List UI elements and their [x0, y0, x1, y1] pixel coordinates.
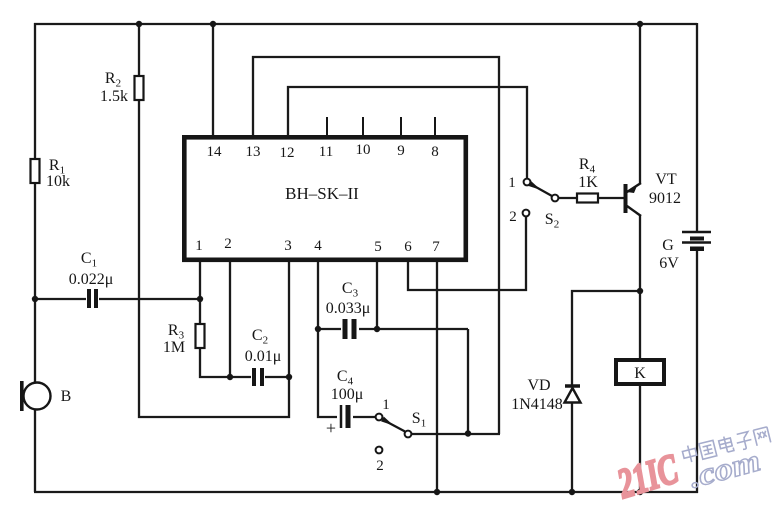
- glyph dian: [718, 435, 734, 454]
- pin 11 stub: [326, 117, 328, 135]
- svg-text:10k: 10k: [46, 173, 70, 190]
- resistor R3: [196, 324, 205, 348]
- wire pin 1 / R3 branch down to C2 line: [200, 261, 289, 377]
- glyph guo: [699, 440, 717, 459]
- svg-text:2: 2: [224, 236, 232, 252]
- glyph zi: [735, 431, 754, 450]
- svg-text:2: 2: [509, 209, 517, 225]
- resistor R4: [577, 194, 598, 203]
- svg-text:6V: 6V: [659, 255, 679, 272]
- transistor VT 9012: [624, 183, 642, 216]
- wire pin 2 riser: [229, 261, 231, 377]
- watermark .com: [685, 442, 764, 494]
- svg-text:BH–SK–II: BH–SK–II: [285, 184, 359, 203]
- svg-text:10: 10: [356, 142, 371, 158]
- wire C1 line from left rail to pin 1 node: [35, 298, 200, 300]
- capacitor C2: [251, 368, 265, 386]
- svg-text:VD: VD: [527, 377, 550, 394]
- pin 9 stub: [400, 117, 402, 135]
- svg-text:11: 11: [319, 144, 333, 160]
- pin 10 stub: [362, 117, 364, 135]
- node dot pin1 C1: [197, 296, 203, 302]
- svg-text:5: 5: [374, 239, 382, 255]
- wire top supply rail: [34, 23, 697, 25]
- wire C3 line: [318, 328, 468, 330]
- wire pin 13 loop to S1 output: [253, 57, 499, 434]
- svg-text:1K: 1K: [578, 174, 598, 191]
- svg-text:1: 1: [195, 238, 203, 254]
- svg-text:R4: R4: [579, 156, 596, 176]
- svg-text:9012: 9012: [649, 190, 681, 207]
- svg-text:B: B: [61, 388, 72, 405]
- svg-text:C2: C2: [252, 327, 268, 347]
- wire C3 right riser down to S1 output: [467, 329, 469, 433]
- svg-text:8: 8: [431, 144, 439, 160]
- node dot ground rail VD: [569, 489, 575, 495]
- wire relay to ground rail: [639, 385, 641, 492]
- wire VD branch horizontal from collector node: [572, 291, 640, 386]
- node dot ground rail pin7: [434, 489, 440, 495]
- capacitor C1: [86, 289, 99, 308]
- svg-text:14: 14: [207, 144, 223, 160]
- watermark 21IC: [612, 446, 684, 508]
- svg-text:R2: R2: [105, 70, 121, 90]
- resistor R2: [135, 76, 144, 100]
- node dot top rail at R2: [136, 21, 142, 27]
- svg-text:1.5k: 1.5k: [100, 88, 128, 105]
- node dot top rail at pin 14: [210, 21, 216, 27]
- node dot pin2 C2: [227, 374, 233, 380]
- svg-text:S2: S2: [545, 211, 559, 231]
- svg-text:0.01μ: 0.01μ: [245, 348, 282, 365]
- pin 8 stub: [434, 117, 436, 135]
- svg-text:C3: C3: [342, 280, 359, 300]
- node dot pin3 C2: [286, 374, 292, 380]
- wire VT collector down to relay: [639, 215, 641, 360]
- svg-text:1: 1: [382, 397, 390, 413]
- wire R4 to transistor base: [598, 197, 624, 199]
- capacitor C3: [341, 319, 359, 339]
- svg-text:G: G: [662, 237, 674, 254]
- wire VD anode to ground rail: [571, 401, 573, 492]
- wire pin 14 riser to top rail: [212, 24, 214, 136]
- wire pin 7 riser to ground rail: [436, 261, 438, 492]
- node dot ground rail relay: [637, 489, 643, 495]
- svg-text:4: 4: [314, 238, 322, 254]
- watermark 中国电子网 drawn as paths: [681, 426, 770, 464]
- svg-text:0.033μ: 0.033μ: [326, 300, 371, 317]
- microphone B: [20, 381, 51, 411]
- node dot top rail at VT emitter: [637, 21, 643, 27]
- glyph zhong: [681, 444, 698, 464]
- svg-text:100μ: 100μ: [331, 386, 364, 403]
- svg-text:2: 2: [376, 458, 384, 474]
- svg-text:3: 3: [284, 238, 292, 254]
- relay K: [616, 360, 664, 384]
- svg-text:7: 7: [432, 239, 440, 255]
- svg-text:K: K: [634, 365, 646, 382]
- svg-text:S1: S1: [412, 410, 426, 430]
- wire VT emitter riser to top rail: [639, 24, 641, 183]
- wire pin 4 riser down to C4 line: [318, 261, 377, 417]
- wire right battery rail: [696, 23, 698, 231]
- diode VD 1N4148: [565, 386, 581, 403]
- glyph wang: [753, 427, 770, 446]
- node dot S1 output riser: [465, 430, 471, 436]
- wire pin 5 riser: [376, 261, 378, 329]
- node dot pin5 C3: [374, 326, 380, 332]
- capacitor C4 electrolytic: [337, 405, 353, 429]
- battery G 6V: [682, 232, 711, 251]
- svg-text:1N4148: 1N4148: [511, 396, 563, 413]
- switch S2: [523, 179, 559, 217]
- node dot collector VD branch: [637, 288, 643, 294]
- wire left rail: [34, 23, 36, 492]
- svg-text:+: +: [326, 418, 336, 438]
- wire S1 output line: [411, 433, 500, 435]
- node dot left rail C1: [32, 296, 38, 302]
- svg-text:1: 1: [508, 175, 516, 191]
- svg-text:1M: 1M: [163, 339, 185, 356]
- svg-text:0.022μ: 0.022μ: [69, 271, 114, 288]
- wire right battery rail lower: [696, 250, 698, 493]
- svg-text:C1: C1: [81, 250, 97, 270]
- svg-text:VT: VT: [655, 171, 677, 188]
- svg-text:9: 9: [397, 143, 405, 159]
- wire pin 12 loop to S2 contact 1: [288, 87, 527, 179]
- wire bottom ground rail: [34, 491, 698, 493]
- wire S2 common to R4: [558, 197, 578, 199]
- node dot pin4 C3: [315, 326, 321, 332]
- svg-text:21IC: 21IC: [612, 446, 684, 508]
- resistor R1: [31, 159, 40, 183]
- switch S1: [376, 414, 412, 454]
- svg-text:6: 6: [404, 239, 412, 255]
- wire pin 6 loop to S2 contact 2: [408, 216, 526, 290]
- wire R2 branch from top rail down and around to pin 3: [139, 24, 289, 417]
- svg-text:13: 13: [246, 144, 261, 160]
- svg-text:C4: C4: [337, 368, 354, 388]
- IC U1 BH-SK-II package: [184, 137, 466, 259]
- svg-text:12: 12: [280, 145, 295, 161]
